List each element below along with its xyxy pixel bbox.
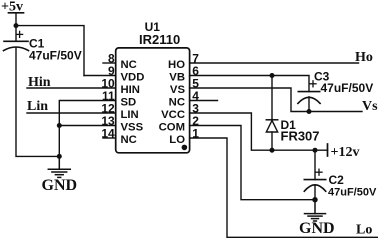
diode D1 cathode bar [266, 119, 277, 121]
svg-text:NC: NC [121, 134, 137, 146]
node J7 (C2 top junction) [313, 148, 318, 153]
capacitor C2 curved plate [304, 185, 325, 192]
node J3 (left ground junction) [57, 154, 62, 159]
svg-text:COM: COM [159, 122, 185, 134]
svg-text:VCC: VCC [161, 109, 185, 121]
node J4 (VB/D1 junction) [270, 73, 275, 78]
wire pin 8 stub [103, 62, 116, 64]
svg-text:NC: NC [169, 97, 185, 109]
wire VSS pin 13 [59, 125, 115, 127]
wire VS pin 5 to Vs [190, 88, 362, 112]
wire VB pin 6 to C3 [190, 76, 309, 92]
node J2 (VSS/SD junction) [57, 123, 62, 128]
capacitor C3 top plate [298, 91, 319, 93]
svg-text:LIN: LIN [121, 109, 139, 121]
svg-text:HIN: HIN [121, 84, 140, 96]
power +5v bar [9, 12, 24, 14]
svg-text:FR307: FR307 [281, 128, 320, 143]
wire C3 bottom lead [308, 97, 310, 112]
wire pin 14 stub [103, 137, 116, 139]
capacitor C2 plus sign [316, 169, 322, 175]
svg-text:HO: HO [168, 59, 185, 71]
wire pin 4 stub [190, 100, 218, 102]
svg-text:C2: C2 [329, 173, 345, 187]
node J1 (+5v/C1/VDD junction) [14, 23, 19, 28]
wire VDD pin 9 [84, 75, 116, 77]
capacitor C3 plus sign [310, 81, 316, 87]
wire LO pin 1 to Lo [190, 138, 378, 237]
svg-text:LO: LO [169, 134, 185, 146]
svg-text:Ho: Ho [355, 50, 373, 65]
capacitor C3 curved plate [298, 97, 320, 103]
svg-text:SD: SD [121, 97, 137, 109]
node J6 (D1 anode junction) [270, 148, 275, 153]
wire J1 to VDD corner [16, 26, 84, 76]
svg-text:14: 14 [101, 127, 115, 141]
svg-text:Lo: Lo [356, 223, 372, 238]
capacitor C1 plus sign [17, 31, 23, 37]
node J5 (C3/Vs junction) [307, 109, 312, 114]
capacitor C2 top lead [314, 150, 316, 179]
IC U1 pin 1 marker dot [182, 145, 188, 151]
wire HIN pin 10 [27, 87, 116, 89]
wire +5v stem [15, 13, 17, 42]
diode D1 bottom lead [271, 132, 273, 150]
wire C1 bottom to ground rail [16, 47, 59, 156]
diode D1 triangle [266, 121, 277, 133]
power +12v bar [327, 144, 329, 156]
svg-text:47uF/50V: 47uF/50V [29, 49, 82, 63]
capacitor C2 top plate [304, 179, 325, 181]
ground (right) [305, 200, 326, 221]
svg-text:Vs: Vs [362, 99, 378, 114]
svg-text:Lin: Lin [27, 99, 48, 114]
svg-text:VDD: VDD [121, 72, 145, 84]
node J8 (right ground junction) [312, 197, 317, 202]
diode D1 top lead [271, 76, 273, 120]
wire C2 bottom lead [314, 185, 316, 200]
svg-text:+12v: +12v [331, 145, 360, 160]
svg-text:47uF/50V: 47uF/50V [321, 81, 374, 95]
svg-text:GND: GND [299, 220, 335, 237]
svg-text:NC: NC [121, 59, 137, 71]
IC U1 body (IR2110 gate driver) [116, 48, 190, 153]
capacitor C1 top plate [4, 40, 28, 42]
svg-text:GND: GND [42, 177, 78, 194]
svg-text:IR2110: IR2110 [139, 32, 180, 47]
svg-text:VS: VS [170, 84, 186, 96]
wire SD pin 11 down to ground [59, 101, 115, 157]
ground (left) [48, 156, 70, 177]
wire HO pin 7 to Ho [190, 62, 359, 64]
capacitor C1 curved plate [4, 47, 29, 51]
svg-text:47uF/50V: 47uF/50V [328, 187, 377, 199]
wire COM pin 2 to ground rail [190, 126, 315, 200]
svg-text:VB: VB [169, 72, 185, 84]
wire LIN pin 12 [27, 112, 116, 114]
wire VCC pin 3 to +12v rail [190, 113, 328, 150]
svg-text:VSS: VSS [121, 122, 144, 134]
